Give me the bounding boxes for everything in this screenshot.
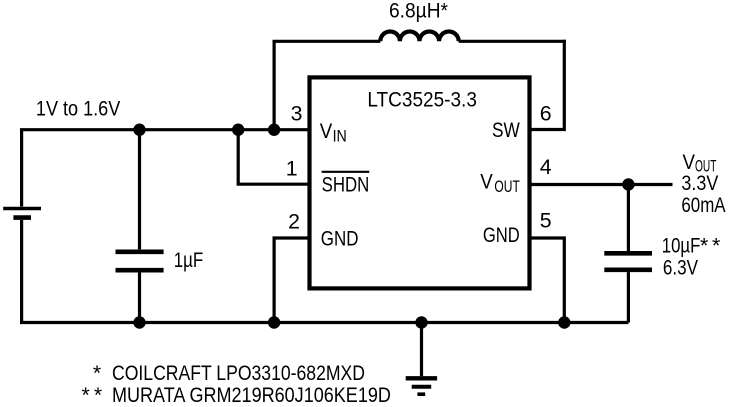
svg-text:*: *	[94, 383, 102, 407]
svg-text:MURATA GRM219R60J106KE19D: MURATA GRM219R60J106KE19D	[112, 383, 391, 407]
capacitor C1 1uF bottom lead	[138, 273, 141, 323]
svg-text:60mA: 60mA	[681, 193, 726, 217]
pin name SW	[492, 118, 521, 142]
svg-text:LTC3525-3.3: LTC3525-3.3	[367, 88, 477, 112]
capacitor C2 10uF plates	[604, 253, 652, 269]
svg-text:5: 5	[540, 208, 552, 232]
label C2 value 10uF**	[662, 234, 720, 258]
pin name GND left	[321, 226, 359, 250]
svg-text:3.3V: 3.3V	[681, 171, 719, 195]
note 1 COILCRAFT	[112, 361, 365, 385]
label C1 value 1uF	[174, 248, 204, 272]
label output voltage 3.3V	[681, 171, 719, 195]
wire VOUT rail	[528, 183, 673, 186]
junction dot VOUT rail at C2	[622, 178, 634, 190]
svg-text:1V to 1.6V: 1V to 1.6V	[36, 97, 121, 121]
junction dot bottom rail at pin5 branch	[558, 316, 570, 328]
svg-text:GND: GND	[483, 223, 520, 247]
label IC part number LTC3525-3.3	[367, 88, 477, 112]
svg-text:1: 1	[286, 157, 298, 181]
svg-text:GND: GND	[321, 226, 359, 250]
svg-text:*: *	[712, 234, 720, 258]
node VOUT output label	[683, 150, 717, 176]
pin number 1	[286, 157, 298, 181]
battery B1 long plate	[3, 207, 41, 210]
junction dot bottom rail at C1	[133, 316, 145, 328]
wire input rail VIN	[20, 128, 311, 131]
junction dot bottom rail at pin2 branch	[268, 316, 280, 328]
op-amp U1 LTC3525-3.3 IC box	[310, 77, 530, 288]
inductor L1 6.8uH	[380, 31, 458, 41]
wire bottom ground rail	[20, 321, 628, 324]
svg-text:SHDN: SHDN	[322, 172, 370, 196]
junction dot input rail at inductor branch	[268, 124, 280, 136]
junction dot input rail at C1	[133, 124, 145, 136]
label C2 rating 6.3V	[663, 256, 699, 280]
note 1 asterisk	[93, 361, 101, 385]
pin name GND right	[483, 223, 520, 247]
junction dot input rail at SHDN branch	[232, 124, 244, 136]
junction dot bottom rail at ground	[415, 316, 427, 328]
capacitor C2 10uF bottom lead	[627, 272, 630, 322]
svg-text:1µF: 1µF	[174, 248, 204, 272]
svg-text:SW: SW	[492, 118, 521, 142]
note 2 asterisks	[82, 383, 103, 407]
wire inductor loop left vertical	[273, 41, 276, 129]
svg-text:6.8µH*: 6.8µH*	[389, 0, 448, 23]
svg-text:V: V	[320, 119, 333, 143]
svg-text:IN: IN	[333, 127, 347, 146]
capacitor C1 1uF top lead	[138, 130, 141, 250]
svg-text:3: 3	[291, 102, 303, 126]
wire pin2 GND branch	[274, 238, 311, 323]
wire top rail left segment	[273, 40, 381, 43]
pin number 3	[291, 102, 303, 126]
label L1 value 6.8uH*	[389, 0, 448, 23]
pin name VOUT inside	[480, 170, 520, 196]
svg-text:OUT: OUT	[494, 177, 519, 196]
label output current 60mA	[681, 193, 726, 217]
note 2 MURATA	[112, 383, 391, 407]
wire battery bottom lead	[20, 220, 23, 323]
wire pin5 GND branch	[528, 238, 564, 323]
svg-text:COILCRAFT LPO3310-682MXD: COILCRAFT LPO3310-682MXD	[112, 361, 365, 385]
capacitor C1 1uF plates	[116, 252, 164, 270]
pin name SHDN with overline	[322, 172, 370, 197]
pin number 5	[540, 208, 552, 232]
svg-text:4: 4	[540, 155, 552, 179]
wire inductor loop right vertical to SW	[528, 40, 564, 130]
svg-text:6: 6	[540, 101, 552, 125]
svg-text:*: *	[93, 361, 101, 385]
svg-text:*: *	[700, 234, 708, 258]
svg-text:6.3V: 6.3V	[663, 256, 699, 280]
pin name VIN	[320, 119, 347, 146]
wire top rail right segment	[459, 40, 566, 43]
wire battery top lead	[20, 130, 23, 207]
battery B1 short plate	[13, 215, 31, 220]
capacitor C2 10uF top lead	[627, 185, 630, 252]
svg-text:V: V	[480, 170, 493, 194]
svg-text:*: *	[82, 383, 90, 407]
wire SHDN branch	[238, 130, 311, 185]
pin number 4	[540, 155, 552, 179]
pin number 2	[288, 210, 300, 234]
ground stem	[420, 323, 423, 377]
ground symbol bars	[406, 378, 437, 394]
svg-text:2: 2	[288, 210, 300, 234]
svg-text:10µF: 10µF	[662, 234, 701, 258]
pin number 6	[540, 101, 552, 125]
label battery voltage 1V to 1.6V	[36, 97, 121, 121]
